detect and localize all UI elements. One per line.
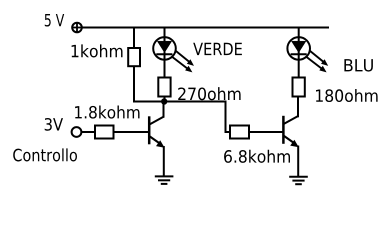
wire rail through LED D2 to R5: [298, 28, 300, 78]
label 3V: [45, 118, 63, 131]
resistor R5 180ohm: [293, 78, 305, 97]
LED D1 VERDE: [153, 37, 194, 72]
wire R2 to node: [164, 97, 166, 102]
wire R3 to Q2 base: [249, 131, 283, 133]
label VERDE: [193, 43, 242, 55]
wire rail to R1: [133, 27, 135, 49]
LED D2 BLU: [287, 37, 328, 72]
resistor R1 1kohm: [128, 48, 140, 66]
transistor Q1: [149, 101, 164, 177]
ground GND2: [289, 177, 308, 185]
ground GND1: [155, 176, 174, 184]
label 6.8kohm: [224, 150, 290, 163]
wire rail through LED D1 to R2: [164, 28, 166, 78]
wire R1 to node corner: [134, 66, 164, 102]
resistor R4 1.8kohm: [95, 126, 114, 139]
wire R4 to Q1 base: [114, 131, 150, 133]
terminal 3V input: [72, 127, 82, 137]
label 5 V: [45, 14, 64, 27]
resistor R2 270ohm: [158, 78, 170, 97]
power terminal +5V: [72, 23, 82, 33]
wire top 5V rail: [82, 27, 329, 29]
label 1.8kohm: [75, 106, 139, 119]
label BLU: [344, 59, 373, 72]
label 1kohm: [72, 44, 123, 57]
transistor Q2: [283, 116, 298, 176]
wire node to R3: [164, 102, 230, 133]
label 270ohm: [178, 87, 240, 100]
wire 3V to R4: [82, 131, 95, 133]
wire R5 to Q2 collector: [297, 97, 299, 118]
node junction dot: [161, 98, 167, 104]
label Controllo: [13, 148, 77, 161]
label 180ohm: [316, 89, 378, 102]
resistor R3 6.8kohm: [230, 126, 249, 139]
